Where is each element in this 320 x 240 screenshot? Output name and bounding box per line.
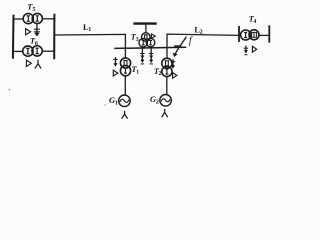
wye symbol under G1	[122, 111, 128, 119]
bus A (left station LV bus)	[12, 15, 15, 59]
wire bus A to T5	[14, 18, 24, 20]
label L1	[83, 23, 91, 33]
generator G2	[160, 95, 172, 107]
wire bar to T3	[145, 25, 147, 33]
delta symbol under T5	[26, 29, 31, 35]
transformer T1	[120, 58, 130, 76]
bus B (left station HV bus)	[53, 14, 55, 60]
label f	[189, 36, 193, 47]
wye symbol under T6	[35, 60, 41, 69]
label G1	[109, 96, 118, 106]
delta symbol right of T2	[173, 73, 177, 79]
label T5	[27, 3, 35, 13]
grounded-wye symbol left of T1	[113, 57, 117, 67]
svg-text:2: 2	[200, 28, 203, 35]
generator G1	[119, 95, 131, 107]
label T2	[154, 67, 162, 77]
svg-text:3: 3	[136, 37, 139, 43]
line L1 with riser to middle bus	[55, 34, 126, 58]
bus D (right station right bus)	[268, 25, 270, 42]
svg-text:2: 2	[156, 99, 159, 105]
svg-text:4: 4	[253, 19, 256, 25]
wire T1 to G1	[124, 76, 126, 95]
transformer T6	[23, 46, 43, 56]
delta symbol under T6	[26, 60, 31, 66]
HV terminal bar above T3	[133, 22, 156, 24]
delta symbol under T4	[252, 46, 256, 52]
svg-text:1: 1	[136, 70, 139, 76]
fault lightning bolt	[173, 37, 187, 57]
delta symbol left of T1	[113, 70, 118, 76]
wire T4 to bus D	[259, 34, 270, 36]
wire bus C to T4	[239, 34, 241, 36]
grounded-wye symbol under T3 right	[149, 48, 153, 64]
wye symbol under G2	[162, 109, 168, 117]
label T3	[131, 33, 139, 43]
svg-text:6: 6	[35, 40, 38, 47]
middle station bus	[114, 47, 186, 48]
label T1	[132, 65, 140, 76]
grounded-wye symbol under T4	[244, 46, 248, 55]
bus C (right station left bus)	[238, 26, 240, 42]
wire bus A to T6	[13, 50, 23, 52]
label T4	[249, 15, 257, 25]
transformer T2	[162, 58, 172, 76]
speck artifacts	[9, 89, 106, 106]
line L2 with riser from middle bus	[167, 34, 240, 58]
label L2	[194, 26, 202, 36]
delta symbol right of T3	[151, 34, 155, 38]
three-winding transformer T3	[139, 33, 155, 47]
wire T2 to G2	[166, 77, 168, 95]
transformer T5	[23, 13, 42, 23]
grounded-wye symbol under T3 left	[140, 48, 144, 64]
svg-text:1: 1	[88, 26, 91, 33]
svg-text:2: 2	[159, 71, 162, 77]
wire T5 to bus B	[42, 18, 54, 20]
wire T6 to bus B	[42, 50, 54, 52]
transformer T4	[241, 30, 259, 40]
svg-text:1: 1	[115, 100, 118, 106]
grounded-wye symbol right of T2	[171, 59, 175, 69]
svg-text:5: 5	[33, 6, 36, 13]
label T6	[30, 37, 38, 47]
grounded-wye symbol under T5	[34, 24, 40, 37]
label G2	[150, 95, 159, 105]
